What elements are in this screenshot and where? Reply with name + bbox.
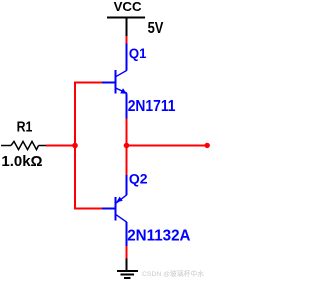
transistor Q1 2N1711 (NPN) [102,44,127,119]
Q2 emitter arrow [116,197,123,203]
wire VCC to Q1 collector [126,36,128,44]
resistor R1 [1,141,46,149]
svg-text:VCC: VCC [114,0,143,14]
svg-text:5V: 5V [148,20,164,37]
svg-text:2N1711: 2N1711 [128,98,176,115]
junction output node [124,143,130,149]
svg-text:R1: R1 [17,120,33,136]
svg-text:CSDN @玻璃杯中水: CSDN @玻璃杯中水 [142,269,204,278]
power symbol VCC [107,18,145,37]
svg-text:1.0kΩ: 1.0kΩ [1,153,42,170]
transistor Q2 2N1132A (PNP) [102,175,127,246]
svg-text:2N1132A: 2N1132A [127,228,191,245]
Q1 emitter arrow [120,88,127,94]
wire R1 to base node [46,145,75,147]
svg-text:Q1: Q1 [129,45,147,61]
junction base node [72,143,78,149]
output pin endpoint [205,143,210,148]
wire Q1 base [75,83,102,146]
wire emitters (output column) [126,119,128,176]
wire output [127,145,206,147]
wire Q2 base [75,146,102,209]
wire Q2 collector to ground [126,246,128,259]
ground [117,259,138,279]
svg-text:Q2: Q2 [129,171,148,187]
